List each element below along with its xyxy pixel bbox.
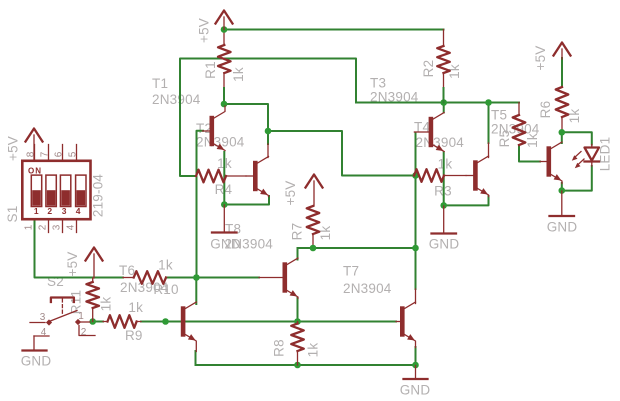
junction node bottom ground (412, 362, 419, 369)
supply label +5V near S1 (6, 136, 21, 161)
LED1 name label (598, 137, 613, 172)
svg-text:R8: R8 (272, 339, 287, 357)
switch S1 value label 219-04 (91, 174, 106, 218)
wire LED cathode branch (562, 166, 592, 191)
resistor R6 labels (538, 101, 582, 124)
svg-text:1k: 1k (525, 133, 540, 148)
svg-text:T7: T7 (343, 264, 359, 279)
resistor R10 labels (153, 258, 178, 298)
svg-text:3: 3 (40, 312, 46, 323)
svg-text:1k: 1k (567, 109, 582, 124)
wire R1 bottom to gate1 output node (223, 73, 225, 104)
ground label GND bottom right (400, 383, 431, 398)
supply label +5V near R6 (533, 46, 548, 71)
transistor T8 name label (225, 222, 274, 252)
supply label +5V near R11 (65, 252, 80, 277)
switch S2 pin numbers (40, 311, 87, 338)
junction node +5V R1/R2 (221, 26, 228, 33)
svg-text:R1: R1 (203, 61, 218, 79)
junction node gate2 output at R2 bottom (440, 99, 447, 106)
junction node LED anode / R6 bottom (559, 129, 566, 136)
wire node B rail R9 to T6 and T8b bases (141, 321, 396, 323)
ground symbol under T2/T1 emitters (212, 205, 237, 233)
svg-text:R2: R2 (421, 60, 436, 78)
junction node LED cathode / emitter (559, 187, 566, 194)
svg-text:6: 6 (54, 151, 65, 157)
junction node A at R10/T6 collector (193, 274, 200, 281)
wire T4 collector riser (443, 103, 445, 113)
ground symbol under S2 (23, 336, 47, 351)
supply +5V arrow above R7 (306, 175, 323, 207)
junction node R8 bottom (294, 362, 301, 369)
wire gate2 output rail (356, 103, 519, 116)
switch S1 slot 2 (46, 175, 56, 206)
ground symbol under LED driver (550, 191, 575, 216)
switch S1 slot numbers 1-4 (34, 206, 81, 216)
wire bottom ground rail (196, 364, 416, 366)
svg-text:1k: 1k (128, 300, 143, 315)
transistor T4 name label (414, 120, 464, 151)
resistor R8 (291, 322, 304, 366)
wire node down to gate3 output rail (415, 176, 417, 249)
svg-text:+5V: +5V (6, 136, 21, 161)
svg-text:3: 3 (62, 206, 67, 216)
junction node R3/T4 base (412, 172, 419, 179)
resistor R11 labels (69, 290, 114, 314)
transistor T5 symbol (466, 156, 489, 197)
svg-text:5: 5 (68, 151, 79, 157)
wire T5 collector riser (488, 103, 490, 158)
resistor R3 body (414, 169, 466, 182)
svg-text:+5V: +5V (197, 18, 212, 43)
svg-text:219-04: 219-04 (91, 174, 106, 218)
ground label GND under T2/T8 emitters (210, 237, 241, 252)
switch S1 slot 4 (76, 175, 86, 206)
wire R5 bottom to LED driver base (519, 145, 540, 162)
transistor T6 name label (119, 263, 169, 295)
svg-text:+5V: +5V (65, 252, 80, 277)
transistor T8 symbol bottom right (396, 302, 416, 348)
svg-text:T1: T1 (152, 76, 168, 91)
wire +5V shaft to R6 top (561, 58, 563, 87)
ground label GND under LED driver (547, 220, 578, 235)
resistor R2 labels (421, 60, 462, 79)
svg-text:T3: T3 (370, 76, 386, 91)
switch S1 bottom pin stubs (49, 220, 77, 233)
svg-text:T6: T6 (119, 263, 135, 278)
supply label +5V near R7 (283, 181, 298, 206)
svg-text:T5: T5 (491, 108, 507, 123)
switch S2 name label (47, 274, 64, 289)
svg-text:GND: GND (429, 237, 460, 252)
resistor R9 labels (125, 300, 143, 343)
svg-text:T8: T8 (225, 222, 241, 237)
svg-text:1k: 1k (438, 157, 453, 172)
wire S1 pin1 to node A (35, 221, 124, 278)
switch S2 symbol (30, 298, 95, 337)
svg-text:1: 1 (34, 206, 39, 216)
svg-text:2N3904: 2N3904 (152, 92, 201, 107)
wire +5V node into R1 top (223, 30, 225, 46)
junction node gate3 rail right (412, 245, 419, 252)
resistor R11 (86, 278, 99, 322)
transistor T1 name label (152, 76, 201, 107)
svg-text:4: 4 (41, 327, 47, 338)
transistor T5 name label (491, 108, 540, 137)
wire +5V top rail to R2 (224, 30, 444, 47)
svg-text:R10: R10 (153, 282, 178, 297)
resistor R5 labels (497, 130, 540, 148)
ground symbol under T4/T5 emitters (432, 206, 457, 234)
transistor T1 symbol (246, 157, 269, 197)
wire T7 collector riser (297, 248, 299, 260)
junction node T8 collector branch (265, 128, 272, 135)
svg-text:1k: 1k (231, 67, 246, 82)
svg-text:GND: GND (547, 220, 578, 235)
transistor T3 name label (370, 76, 419, 105)
svg-text:4: 4 (76, 206, 81, 216)
supply label +5V near R1 (197, 18, 212, 43)
resistor R3 labels (434, 157, 452, 199)
resistor R10 body (123, 271, 166, 284)
ground symbol bottom right (404, 366, 428, 380)
switch S1 name label (5, 206, 20, 223)
junction node R7 on gate3 rail (310, 245, 317, 252)
svg-text:7: 7 (40, 151, 51, 157)
svg-text:2: 2 (81, 327, 87, 338)
junction node T7 emitter / R8 top (294, 318, 301, 325)
switch S1 slot 1 (31, 175, 41, 206)
resistor R1 labels (203, 61, 246, 82)
ground label GND under S2 (21, 354, 52, 369)
svg-text:R7: R7 (289, 223, 304, 241)
wire T8b emitter riser (415, 347, 417, 365)
switch S1 bottom pin numbers 1 2 3 4 (24, 224, 77, 230)
supply +5V arrow above R6 (554, 43, 571, 60)
svg-text:+5V: +5V (283, 181, 298, 206)
svg-text:1k: 1k (306, 343, 321, 358)
wire ground rail T2-T1 emitters (224, 196, 269, 205)
wire T6 emitter riser (195, 351, 197, 365)
transistor T2 (203, 106, 226, 151)
svg-text:1: 1 (78, 311, 84, 322)
switch S1 top pin numbers 8 7 6 5 (26, 151, 79, 157)
transistor T6 symbol (181, 302, 197, 352)
svg-text:8: 8 (26, 151, 37, 157)
svg-text:GND: GND (210, 237, 241, 252)
junction node B at T6 base (162, 318, 169, 325)
svg-text:S2: S2 (47, 274, 64, 289)
resistor R7 labels (289, 223, 333, 241)
transistor T2 name label (196, 121, 245, 150)
svg-text:S1: S1 (5, 206, 20, 223)
resistor R6 (556, 87, 569, 117)
svg-text:R6: R6 (538, 101, 553, 119)
svg-text:1k: 1k (318, 226, 333, 241)
wire T8b collector riser bottom right (415, 248, 417, 304)
wire gate3 output rail (298, 247, 416, 249)
resistor R2 (437, 46, 450, 103)
resistor R4 labels (215, 156, 233, 197)
switch S1 slot 3 (60, 175, 70, 206)
junction node gate1 ground (221, 201, 228, 208)
svg-text:2: 2 (38, 224, 49, 230)
transistor T4 (414, 113, 444, 152)
svg-text:1: 1 (24, 224, 35, 230)
wire node to T4 base (415, 133, 417, 176)
svg-text:R9: R9 (125, 328, 143, 343)
svg-text:4: 4 (66, 224, 77, 230)
svg-text:ON: ON (28, 167, 42, 176)
wire LED driver emitter stub (561, 183, 563, 191)
resistor R7 (307, 206, 320, 234)
resistor R8 labels (272, 339, 321, 357)
svg-text:+5V: +5V (533, 46, 548, 71)
svg-text:2N3904: 2N3904 (343, 281, 392, 296)
wire R6 bottom to LED node (561, 117, 563, 132)
svg-text:GND: GND (400, 383, 431, 398)
wire T8 collector riser (267, 131, 269, 158)
wire T2 emitter down to ground node (223, 152, 225, 205)
svg-text:1k: 1k (99, 297, 114, 312)
transistor LED driver symbol (540, 142, 562, 184)
svg-text:GND: GND (21, 354, 52, 369)
wire gate1 output rail to T8 collector corner (224, 104, 268, 131)
switch S1 ON marking (28, 167, 42, 176)
ground label GND under T4/T5 emitters (429, 237, 460, 252)
junction node B at R11 bottom (89, 318, 96, 325)
wire T6 collector riser (195, 278, 197, 305)
supply +5V arrow above S1 (26, 129, 43, 161)
svg-text:2: 2 (47, 206, 52, 216)
wire R10 right to T7 base (166, 277, 259, 279)
wire ground rail T4-T5 emitters (444, 196, 489, 205)
svg-text:R5: R5 (497, 130, 512, 148)
svg-text:LED1: LED1 (598, 137, 613, 172)
wire node A vertical to T2 base (197, 131, 204, 278)
wire T4 emitter down to ground node (443, 152, 445, 205)
LED LED1 (572, 145, 599, 169)
junction node gate2 ground (440, 202, 447, 209)
supply +5V arrow above R11 (86, 248, 103, 279)
wire T7 emitter riser to node B (297, 298, 299, 322)
wire LED driver collector riser (561, 132, 563, 143)
wire LED anode branch (562, 132, 592, 144)
wire node B from R11 to R9 (93, 321, 103, 323)
junction node gate1 output at R1 bottom (221, 101, 228, 108)
supply +5V arrow above R1 (216, 11, 233, 30)
transistor T7 name label (343, 264, 392, 297)
wire feedback gate2 output to R4 (180, 59, 356, 177)
resistor R1 (218, 45, 231, 73)
wire gate1 output to R3 input (268, 131, 414, 176)
wire R7 bottom stub (312, 234, 314, 248)
resistor R9 body (103, 315, 141, 328)
junction node T5 collector (485, 99, 492, 106)
svg-text:3: 3 (52, 224, 63, 230)
switch S1 DIP body (22, 161, 90, 219)
resistor R5 (513, 115, 526, 145)
resistor R4 body (196, 170, 246, 183)
switch S1 top pin stubs (35, 145, 77, 161)
transistor T7 symbol (259, 258, 298, 299)
svg-text:1k: 1k (158, 258, 173, 273)
